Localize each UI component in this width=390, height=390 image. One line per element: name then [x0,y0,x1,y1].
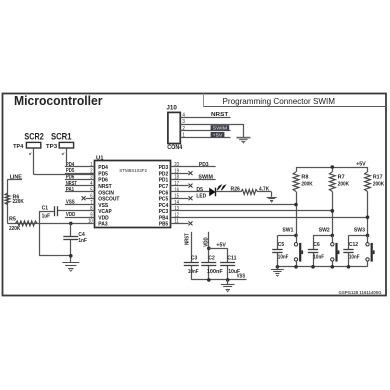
svg-text:C3: C3 [191,256,197,262]
svg-text:VSS: VSS [237,274,246,280]
svg-text:1nF: 1nF [78,238,87,244]
svg-text:13: 13 [174,206,179,212]
svg-text:Microcontroller: Microcontroller [14,94,103,108]
svg-text:1: 1 [90,162,92,168]
svg-text:+5V: +5V [216,242,226,248]
svg-text:200K: 200K [338,181,349,187]
svg-text:D5: D5 [196,187,203,193]
svg-text:U1: U1 [96,155,104,161]
svg-text:PD4: PD4 [66,162,75,168]
svg-text:PD6: PD6 [66,174,74,180]
svg-text:NRST: NRST [98,184,112,190]
svg-text:VSS: VSS [66,200,75,206]
svg-text:PD5: PD5 [66,168,74,174]
svg-text:TP4: TP4 [13,144,24,150]
svg-text:C12: C12 [349,242,358,248]
svg-text:PA1: PA1 [66,187,74,193]
svg-text:VCAP: VCAP [98,209,112,215]
svg-text:STM8S103F2: STM8S103F2 [119,168,147,174]
svg-text:PA3: PA3 [98,222,107,228]
svg-text:PC5: PC5 [159,197,169,203]
svg-text:PD4: PD4 [98,165,108,171]
svg-text:OSCIN: OSCIN [98,190,114,196]
svg-text:16: 16 [174,187,179,193]
svg-text:10nF: 10nF [188,269,199,275]
svg-text:100nF: 100nF [207,269,224,275]
svg-text:200K: 200K [301,181,312,187]
svg-text:VDD: VDD [98,215,108,221]
svg-text:5: 5 [90,187,92,193]
svg-text:220K: 220K [13,199,24,205]
svg-text:OSCOUT: OSCOUT [98,197,120,203]
svg-text:VDD: VDD [204,237,210,247]
svg-text:PD3: PD3 [159,165,169,171]
svg-text:200K: 200K [373,181,384,187]
svg-text:PD6: PD6 [98,178,108,184]
svg-text:R26: R26 [231,186,240,192]
svg-text:PB5: PB5 [159,222,168,228]
svg-text:220K: 220K [9,226,20,232]
svg-text:R7: R7 [338,174,345,180]
svg-text:NRST: NRST [211,112,229,118]
svg-text:VSS: VSS [98,203,108,209]
svg-text:LED: LED [196,193,206,199]
svg-text:PD3: PD3 [199,162,209,168]
svg-text:C2: C2 [208,256,214,262]
svg-text:R5: R5 [9,217,16,223]
svg-text:NRST: NRST [66,181,77,187]
svg-text:20: 20 [174,162,179,168]
svg-text:PD1: PD1 [159,178,169,184]
svg-text:C1: C1 [42,206,48,212]
svg-text:CON4: CON4 [167,145,183,151]
svg-text:VDD: VDD [66,212,75,218]
svg-text:SWIM: SWIM [198,174,213,180]
svg-text:SW3: SW3 [354,227,365,233]
svg-text:SWIM: SWIM [213,126,228,132]
svg-text:+5V: +5V [356,161,366,167]
svg-text:PC6: PC6 [159,190,169,196]
svg-text:SW2: SW2 [319,227,330,233]
svg-text:Programming Connector SWIM: Programming Connector SWIM [223,96,336,106]
svg-text:10nF: 10nF [278,254,289,260]
svg-text:R8: R8 [301,174,308,180]
svg-text:10nF: 10nF [349,254,360,260]
svg-text:SCR2: SCR2 [24,131,43,141]
svg-text:R17: R17 [373,174,383,180]
svg-text:PC4: PC4 [159,203,169,209]
svg-text:TP3: TP3 [46,144,57,150]
svg-text:J10: J10 [166,105,177,111]
svg-text:NRST: NRST [185,233,191,245]
svg-text:PD5: PD5 [98,171,108,177]
svg-text:C11: C11 [227,256,236,262]
svg-text:10nF: 10nF [313,254,324,260]
svg-text:PC7: PC7 [159,184,169,190]
svg-text:1uF: 1uF [42,214,51,220]
svg-text:SW1: SW1 [282,227,293,233]
svg-text:GSPG128 11611400G: GSPG128 11611400G [339,290,383,295]
svg-text:SCR1: SCR1 [51,131,72,141]
svg-text:+5V: +5V [213,132,224,138]
svg-text:PB4: PB4 [159,215,169,221]
svg-text:C5: C5 [278,242,284,248]
svg-text:C6: C6 [313,242,319,248]
svg-text:PD2: PD2 [159,171,169,177]
svg-text:8: 8 [90,206,92,212]
svg-text:PC3: PC3 [159,209,169,215]
